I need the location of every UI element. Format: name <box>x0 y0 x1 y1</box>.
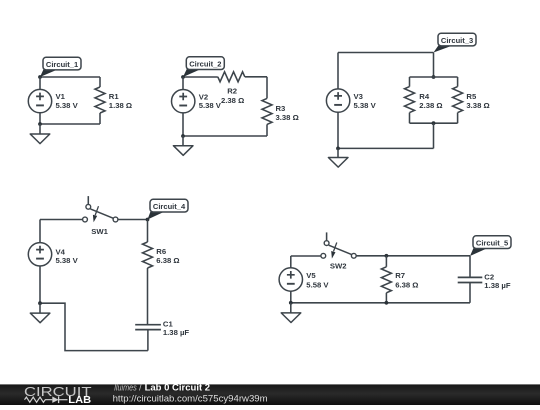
svg-text:Lab 0 Circuit 2: Lab 0 Circuit 2 <box>145 381 211 392</box>
capacitor C2 <box>458 256 511 303</box>
svg-text:C2: C2 <box>484 272 494 281</box>
svg-text:6.38 Ω: 6.38 Ω <box>395 280 418 289</box>
node B1 <box>432 75 436 79</box>
svg-text:SW2: SW2 <box>330 262 347 271</box>
switch SW1 <box>83 196 118 236</box>
resistor R1 <box>95 77 132 124</box>
switch SW2 <box>321 232 356 270</box>
svg-text:V3: V3 <box>354 92 363 101</box>
svg-text:5.38 V: 5.38 V <box>56 101 79 110</box>
logo CIRCUIT text <box>24 385 92 399</box>
svg-text:R6: R6 <box>156 247 166 256</box>
footer bar <box>0 384 540 405</box>
svg-text:R4: R4 <box>419 92 430 101</box>
svg-text:V2: V2 <box>199 92 208 101</box>
svg-text:1.38 µF: 1.38 µF <box>484 281 511 290</box>
label Circuit_1 <box>40 57 81 77</box>
resistor R6 <box>143 220 180 325</box>
resistor R5 <box>453 77 490 123</box>
wire <box>433 123 435 148</box>
wire <box>40 303 148 350</box>
svg-text:V4: V4 <box>56 247 66 256</box>
svg-text:V5: V5 <box>306 271 316 280</box>
svg-text:6.38 Ω: 6.38 Ω <box>156 256 179 265</box>
svg-text:lluimes: lluimes <box>114 381 137 392</box>
node D1 <box>385 254 389 258</box>
svg-text:5.38 V: 5.38 V <box>56 256 79 265</box>
node <box>181 134 185 138</box>
wire <box>183 135 267 137</box>
label Circuit_5 <box>470 236 511 256</box>
wire <box>266 77 268 99</box>
svg-text:C1: C1 <box>163 319 174 328</box>
svg-text:5.58 V: 5.58 V <box>306 280 329 289</box>
ground <box>281 303 301 323</box>
svg-text:Circuit_4: Circuit_4 <box>153 202 186 211</box>
ground <box>173 136 193 155</box>
label Circuit_3 <box>434 33 477 52</box>
resistor R3 <box>262 98 299 136</box>
wire <box>410 76 458 78</box>
node <box>289 301 293 305</box>
node <box>336 147 340 151</box>
footer url <box>113 394 268 404</box>
wire <box>338 147 434 149</box>
svg-text:5.38 V: 5.38 V <box>199 101 222 110</box>
svg-text:3.38 Ω: 3.38 Ω <box>466 101 489 110</box>
svg-text:SW1: SW1 <box>91 227 108 236</box>
wire <box>356 255 470 257</box>
ground <box>30 303 50 323</box>
voltage source V4 <box>28 220 78 304</box>
svg-text:2.38 Ω: 2.38 Ω <box>221 96 244 105</box>
svg-text:/: / <box>139 381 142 392</box>
svg-text:http://circuitlab.com/c575cy94: http://circuitlab.com/c575cy94rw39m <box>113 394 268 404</box>
svg-text:R3: R3 <box>276 104 286 113</box>
svg-text:R1: R1 <box>109 92 120 101</box>
svg-text:1.38 Ω: 1.38 Ω <box>109 101 132 110</box>
footer title <box>114 381 210 392</box>
logo LAB text <box>68 395 91 406</box>
node <box>38 122 42 126</box>
voltage source V3 <box>326 53 376 149</box>
capacitor C1 <box>135 319 189 350</box>
node A2 <box>181 75 185 79</box>
svg-text:5.38 V: 5.38 V <box>354 101 377 110</box>
wire <box>291 302 470 304</box>
svg-text:LAB: LAB <box>68 395 91 405</box>
svg-text:3.38 Ω: 3.38 Ω <box>276 113 299 122</box>
svg-text:R5: R5 <box>466 92 477 101</box>
wire <box>338 52 434 54</box>
resistor R7 <box>381 256 418 303</box>
wire <box>40 76 100 78</box>
logo resistor zigzag <box>25 397 53 402</box>
svg-text:R7: R7 <box>395 271 405 280</box>
svg-text:Circuit_2: Circuit_2 <box>189 60 221 69</box>
logo diode <box>52 396 67 403</box>
voltage source V2 <box>172 77 222 136</box>
svg-text:2.38 Ω: 2.38 Ω <box>419 101 442 110</box>
wire <box>291 255 321 257</box>
wire <box>40 123 100 125</box>
resistor R2 <box>218 72 267 105</box>
wire <box>118 219 148 221</box>
ground <box>30 124 50 144</box>
voltage source V5 <box>279 256 329 303</box>
node B2 <box>432 121 436 125</box>
resistor R4 <box>405 77 443 123</box>
wire <box>410 122 458 124</box>
wire <box>433 53 435 78</box>
svg-text:Circuit_3: Circuit_3 <box>441 36 473 45</box>
svg-text:Circuit_1: Circuit_1 <box>46 60 79 69</box>
node C1n <box>146 218 150 222</box>
label Circuit_2 <box>183 57 224 77</box>
svg-text:V1: V1 <box>56 92 66 101</box>
svg-text:1.38 µF: 1.38 µF <box>163 328 190 337</box>
svg-text:Circuit_5: Circuit_5 <box>476 239 509 248</box>
svg-text:R2: R2 <box>227 87 237 96</box>
wire <box>183 76 218 78</box>
ground <box>328 148 348 167</box>
node <box>385 301 389 305</box>
node A1 <box>38 75 42 79</box>
node <box>38 301 42 305</box>
wire <box>40 219 83 221</box>
voltage source V1 <box>28 77 78 124</box>
label Circuit_4 <box>148 199 189 219</box>
